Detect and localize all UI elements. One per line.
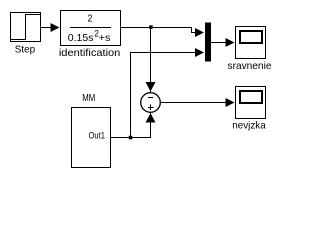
svg-text:0.15s: 0.15s: [68, 32, 94, 44]
svg-text:Out1: Out1: [89, 131, 106, 141]
svg-text:MM: MM: [82, 92, 95, 104]
svg-text:nevjzka: nevjzka: [232, 120, 266, 132]
svg-text:+s: +s: [99, 32, 111, 44]
svg-text:identification: identification: [59, 47, 121, 59]
svg-text:Step: Step: [15, 44, 36, 56]
svg-text:2: 2: [88, 13, 93, 25]
svg-text:sravnenie: sravnenie: [228, 60, 272, 72]
